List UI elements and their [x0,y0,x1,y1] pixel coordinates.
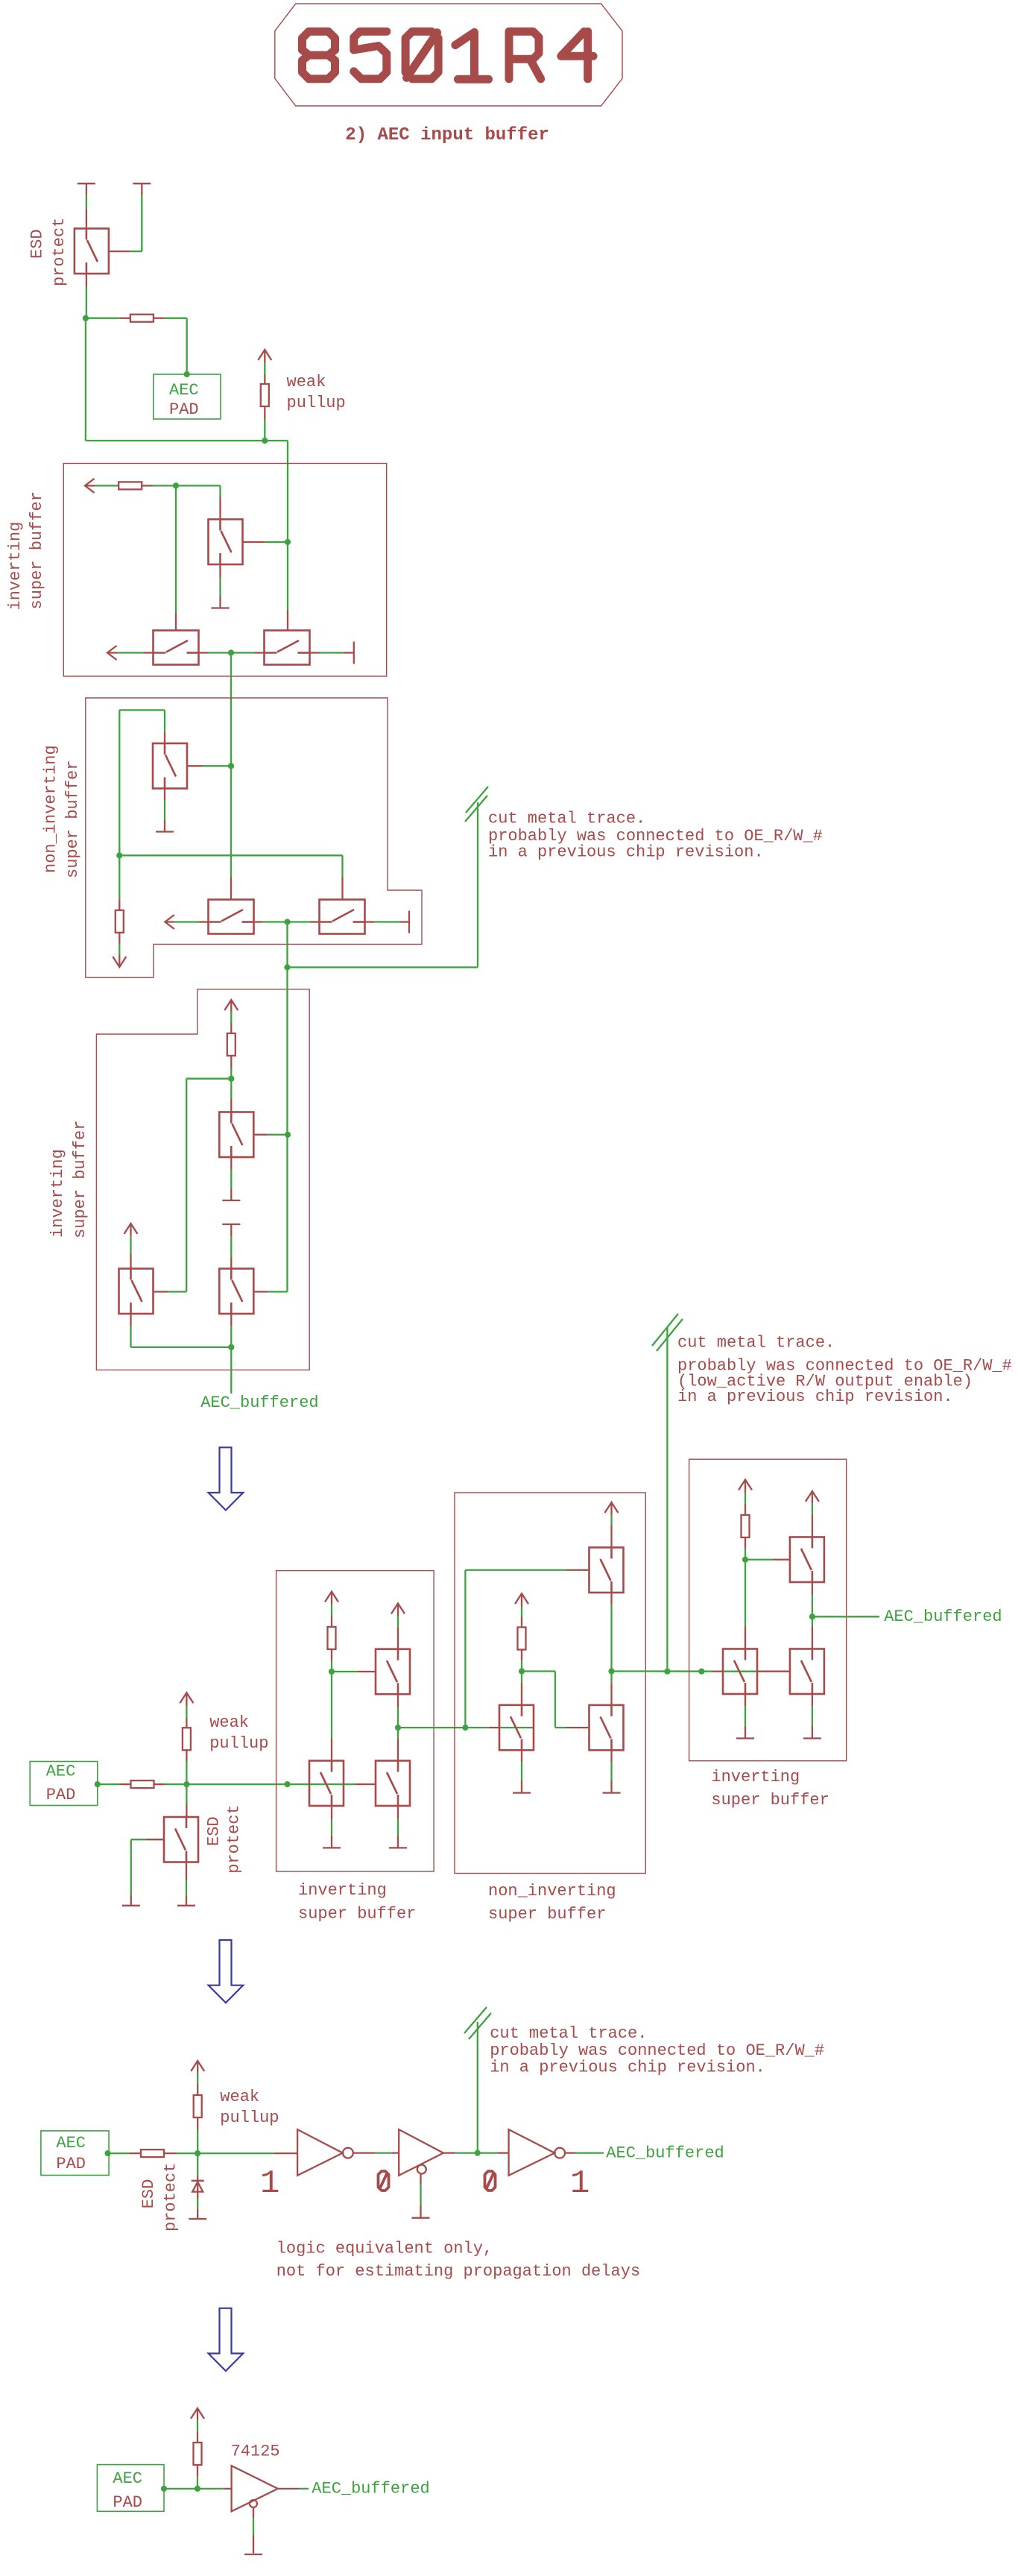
buffer U1 74125 [232,2466,278,2511]
wire R6 to node [331,1649,332,1660]
svg-text:inverting: inverting [6,522,25,611]
wire output down [230,1347,232,1394]
junction box3 output [228,1344,234,1350]
wire M1 gate to net [243,541,265,543]
arrow out left box2 row [165,915,174,929]
supply arrow box3 left [124,1224,138,1234]
wire pad3 to R9 [108,2153,130,2154]
supply arrow weak pullup 1 [258,350,271,360]
supply arrow box4 load [325,1592,338,1602]
transistor M7 box3 upper [219,1112,253,1158]
supply arrow box5 load [515,1593,528,1604]
wire T9 source to ground [812,1694,813,1706]
svg-text:AEC_buffered: AEC_buffered [884,1607,1002,1626]
wire arrow to M2 [107,652,117,653]
wire pullup 3 [197,2061,198,2073]
svg-text:not for estimating propagation: not for estimating propagation delays [276,2262,640,2281]
wire M2 to junction [199,652,209,653]
supply rail bar 2 [133,183,151,184]
junction box5 input [462,1725,468,1731]
wire input through T5 [489,1727,499,1728]
wire T3 source to ground [397,1806,399,1819]
inverter G3 [509,2129,555,2176]
wire vertical net to M3 gate [287,542,288,610]
wire node down to T5 drain [521,1672,522,1683]
svg-text:protect: protect [225,1804,244,1873]
wire arrow to R7 [521,1593,522,1607]
vertical net into box3 [286,967,288,1134]
supply arrow pullup 4 [191,2408,204,2419]
resistor R8 box6 [742,1515,750,1537]
junction pad 2 node [183,1781,189,1787]
svg-text:ESD: ESD [28,229,46,259]
junction pad 3 node [195,2150,200,2156]
arrow out down box2 [113,957,126,967]
cut trace hatch 2 [652,1314,678,1346]
svg-text:AEC: AEC [113,2469,142,2488]
wire output right [398,1727,489,1728]
frame non_inverting super buffer [86,698,422,977]
svg-text:super buffer: super buffer [488,1905,606,1924]
resistor R5 series [131,1780,154,1788]
svg-text:super buffer: super buffer [63,760,82,878]
wire diode to ground [197,2181,198,2199]
wire arrow to R8 [745,1480,746,1493]
wire output down to T6 [610,1672,612,1683]
wire M4 drain up-left [164,732,165,743]
wire T1 source to ground [331,1806,332,1819]
wire input up to T4 gate [464,1570,466,1728]
junction box3 top node [228,1076,234,1082]
junction box1 output [228,649,234,655]
wire M7 source to T-bar [230,1157,232,1169]
junction box2 output [284,919,290,925]
svg-text:cut metal trace.: cut metal trace. [488,810,645,828]
transistor T2 box4 upper right [376,1649,410,1695]
wire node to M8 gate route [186,1078,231,1080]
wire box1 output down [230,653,232,766]
svg-text:inverting: inverting [711,1768,800,1786]
svg-text:non_inverting: non_inverting [488,1882,616,1900]
wire M6 to T-bar [365,921,375,922]
wire inverted node to M6 gate [119,854,342,856]
wire T4 source to output [610,1593,612,1605]
AEC PAD box 1 [154,374,221,419]
junction box5 inverted node [519,1668,525,1674]
svg-text:ESD: ESD [139,2179,158,2209]
ground T7 [736,1737,754,1739]
wire Q1 source to node [86,274,87,286]
frame inverting super buffer 2 [96,989,309,1370]
wire output down to T9 [812,1616,813,1626]
transistor T3 box4 lower right [376,1761,410,1807]
wire T5 source to ground [521,1750,522,1762]
wire node down to M7 [230,1079,232,1099]
ground Q2 [177,1905,195,1906]
ground T5 [513,1792,531,1793]
svg-text:PAD: PAD [169,400,199,419]
wire input through T1 [309,1783,355,1785]
svg-text:74125: 74125 [231,2443,280,2461]
supply arrow box5 right [605,1502,619,1513]
resistor weak pullup 1 [261,384,269,406]
wire G1 to G2 [353,2152,375,2153]
svg-text:cut metal trace.: cut metal trace. [490,2024,647,2043]
svg-text:weak: weak [287,373,326,391]
svg-text:in a previous chip revision.: in a previous chip revision. [488,843,764,862]
junction pad node [83,315,89,321]
junction at AEC PAD pin [184,371,190,377]
transistor Q2 ESD protect 2 [164,1817,198,1862]
svg-text:super buffer: super buffer [298,1905,416,1924]
supply T terminal box1 [353,642,355,664]
frame non_inverting super buffer 2 [455,1493,645,1874]
junction box6 inverted node [742,1557,748,1563]
supply arrow weak pullup 2 [180,1692,193,1703]
wire input through T7 [712,1671,723,1672]
wire M4 gate [187,765,203,766]
wire node down to Q2 [186,1784,187,1804]
logic level 0 [379,2171,389,2191]
blue arrow 3 [209,2308,244,2371]
wire M7 gate [253,1134,268,1136]
inverter G2 [399,2129,443,2176]
transistor T5 box5 lower left [499,1705,534,1751]
svg-text:AEC: AEC [56,2134,86,2153]
wire node down to T7 drain [745,1560,746,1627]
ground T6 [603,1792,621,1793]
title frame octagon [275,4,622,106]
transistor M5 box2 lower center [209,900,254,934]
wire box5 output right [612,1670,646,1672]
wire pullup 2 [186,1692,187,1706]
wire node to R3 [118,855,120,899]
supply arrow box3 pullup [224,1000,238,1010]
transistor T8 box6 upper right [790,1537,824,1583]
wire G3 out [565,2152,575,2153]
supply arrow weak pullup 3 [191,2061,204,2071]
svg-text:probably was connected to OE_R: probably was connected to OE_R/W_# [490,2041,824,2060]
supply arrow box6 right [806,1491,819,1502]
AEC PAD box 4 [97,2465,164,2512]
wire arrow to T8 [812,1491,813,1503]
wire node to inverter 1 [197,2153,274,2154]
svg-text:PAD: PAD [113,2493,142,2512]
svg-text:protect: protect [50,218,69,286]
wire R3 to arrow [118,933,120,944]
ground G2 enable [412,2217,430,2219]
junction pad 2 pin [95,1781,101,1787]
resistor R2 load box1 [118,482,142,489]
svg-text:super buffer: super buffer [711,1791,829,1810]
junction box6 output [809,1613,815,1619]
wire R8 to node [745,1537,746,1549]
wire M3 to T-bar [310,652,320,653]
wire pullup 4 [197,2408,198,2420]
wire R1 to pad [154,318,165,319]
wire node to M1 drain [176,485,221,486]
resistor weak pullup 3 [194,2095,202,2117]
wire arrow to M5 [165,921,174,922]
ground diode [189,2218,206,2220]
wire output down to T3 [397,1728,399,1738]
wire U1 out [278,2488,299,2490]
svg-text:non_inverting: non_inverting [41,745,60,873]
junction pad 4 node [195,2486,200,2492]
svg-text:inverting: inverting [298,1881,387,1900]
wire rail2 to Q1 gate [141,183,142,195]
junction box2 inverted node [116,852,122,858]
junction pad 4 pin [161,2486,167,2492]
T terminal upper box3 [222,1200,240,1201]
wire T-bar to M9 [230,1224,232,1236]
supply arrow box6 load [739,1480,752,1490]
wire node to R1 [86,318,120,319]
transistor M2 box1 lower left [154,631,199,665]
svg-text:AEC_buffered: AEC_buffered [312,2480,429,2498]
svg-text:in a previous chip revision.: in a previous chip revision. [490,2059,765,2077]
wire cut trace 2 vertical [666,1327,668,1672]
resistor R4 box3 [227,1033,236,1056]
wire junction to M3 [255,652,265,653]
wire junction to M6 [310,921,320,922]
svg-text:pullup: pullup [220,2109,279,2127]
junction box4 inverted node [329,1669,335,1675]
ground T9 [803,1737,821,1739]
wire node down to diode [197,2153,198,2176]
ground M1 [212,607,230,608]
wire U1 enable to ground [253,2507,254,2518]
wire cut trace 3 vertical [477,2022,478,2153]
wire R2 to node [142,485,153,486]
junction box5 output [608,1668,614,1674]
junction weak pullup 1 [262,438,268,444]
frame inverting super buffer 4 [689,1459,847,1761]
wire node right and down [522,1670,555,1672]
resistor R1 series pad [130,315,154,322]
wire T8 source to output [812,1582,813,1595]
wire node to T8 gate [745,1559,774,1561]
transistor M6 box2 lower right [320,900,365,934]
transistor T7 box6 lower left [723,1649,757,1695]
resistor R3 box2 [116,910,124,933]
wire node to buffer [197,2488,224,2490]
diode D1 ESD [192,2180,204,2182]
wire M8 source down [130,1314,131,1326]
transistor M9 box3 lower center [219,1269,253,1314]
frame inverting super buffer 1 [63,464,386,677]
ground Q2 gate [122,1905,140,1906]
junction cut trace 3 tap [475,2150,481,2156]
T terminal lower box3 [222,1224,240,1225]
transistor T6 box5 lower right [589,1705,624,1751]
wire M5 to junction [254,921,263,922]
transistor T9 box6 lower right [790,1649,824,1695]
wire M9 source down [230,1314,232,1326]
svg-text:AEC_buffered: AEC_buffered [200,1394,318,1412]
junction M4 gate [228,763,234,769]
svg-text:2) AEC input buffer: 2) AEC input buffer [345,125,549,145]
wire M4 source to ground [164,789,165,801]
wire arrow to R4 [230,1000,232,1012]
junction M1 gate on vertical net [285,539,291,545]
wire arrow to R6 [331,1592,332,1605]
wire M9 gate [253,1291,268,1292]
junction box1 gate node [173,482,179,488]
AEC PAD box 3 [41,2131,109,2176]
wire G2 enable to ground [420,2174,421,2185]
svg-text:PAD: PAD [56,2155,86,2173]
wire node down to T1 [331,1672,332,1739]
wire rail1 to Q1 drain [86,183,87,195]
wire node down/right to pullup [85,318,86,441]
transistor T4 box5 upper right [589,1548,624,1593]
transistor M1 box1 upper [209,520,243,565]
wire to T6 gate [555,1727,566,1728]
wire pad4 to node [164,2488,197,2490]
wire pullup1 [264,350,265,362]
inverter G1 [297,2129,343,2176]
resistor weak pullup 2 [183,1728,191,1750]
wire R7 to node [521,1650,522,1661]
svg-text:in a previous chip revision.: in a previous chip revision. [677,1388,953,1406]
svg-text:weak: weak [209,1713,249,1732]
AEC PAD box 2 [30,1762,98,1806]
resistor R9 series [141,2150,164,2157]
transistor Q1 ESD protect [75,229,109,274]
wire M1 source to ground [219,564,221,577]
svg-text:AEC_buffered: AEC_buffered [606,2144,724,2163]
ground T3 [389,1847,407,1848]
junction box4 output [395,1725,401,1731]
junction cut trace 2 tap [664,1669,670,1675]
supply rail bar 1 [78,183,95,184]
junction input net [284,1781,290,1787]
ground M4 [156,831,174,832]
svg-text:1: 1 [260,2165,279,2202]
junction input box6 [698,1669,704,1675]
svg-text:super buffer: super buffer [71,1121,89,1238]
wire T2 source to output [397,1694,399,1707]
long vertical net from pad node [287,441,288,542]
wire Q2 gate to ground [146,1839,164,1840]
wire R4 to node [230,1056,232,1068]
supply T terminal box2 [408,911,410,933]
wire T6 source to ground [610,1750,612,1762]
wire to inverter 3 [478,2152,498,2153]
wire gate node down to M2 [175,485,177,613]
svg-text:PAD: PAD [46,1786,76,1804]
svg-text:cut metal trace.: cut metal trace. [677,1334,835,1352]
svg-text:logic equivalent only,: logic equivalent only, [276,2240,493,2258]
wire node to T2 gate [332,1671,358,1672]
svg-text:1: 1 [570,2165,589,2202]
svg-text:weak: weak [220,2088,259,2106]
svg-text:pullup: pullup [287,394,346,412]
svg-text:ESD: ESD [205,1816,224,1846]
frame inverting super buffer 3 [276,1571,434,1871]
resistor R7 box5 [518,1628,526,1650]
resistor R6 box4 [328,1627,336,1649]
wire arrow to T2 [397,1604,399,1617]
wire T7 source to ground [745,1694,746,1706]
wire gate net down to M5 [230,766,232,877]
title text 8501R4 [303,31,594,79]
logic level 0b [485,2171,496,2191]
junction M7 gate [285,1132,291,1138]
arrow out left box1 row [107,646,117,660]
supply arrow box4 right [391,1604,405,1614]
cut trace hatch 1 [466,787,488,813]
wire arrow to M8 [130,1224,131,1236]
blue arrow 1 [209,1447,244,1510]
wire G2 out to junction [443,2152,455,2153]
ground U1 enable [244,2554,262,2555]
resistor pullup 4 [194,2443,202,2465]
wire to cut metal trace 1 [288,966,478,968]
junction cut trace tap [284,964,290,970]
svg-text:protect: protect [162,2163,180,2232]
arrow out left box1 [85,479,95,493]
wire output right [812,1616,879,1617]
transistor M8 box3 lower left [119,1269,154,1314]
transistor M4 box2 upper [153,743,187,789]
svg-text:inverting: inverting [48,1149,67,1238]
transistor T1 box4 lower left [309,1761,344,1807]
blue arrow 2 [209,1940,244,2003]
ground T1 [323,1847,341,1848]
wire R5 to node [154,1783,165,1785]
svg-text:AEC: AEC [46,1762,76,1780]
wire arrow to R2 [85,485,95,486]
cut trace hatch 3 [464,2007,487,2033]
wire R9 to node [164,2153,177,2154]
wire pad2 to R5 [98,1783,119,1785]
wire box2 output down [286,922,288,968]
svg-text:AEC: AEC [169,381,199,400]
svg-text:super buffer: super buffer [28,491,46,609]
wire arrow to T4 [610,1502,612,1515]
transistor M3 box1 lower right [265,631,310,665]
svg-text:pullup: pullup [209,1734,268,1753]
wire Q2 source to ground [186,1862,187,1881]
junction pad 3 pin [105,2150,111,2156]
wire main input net [186,1783,309,1785]
